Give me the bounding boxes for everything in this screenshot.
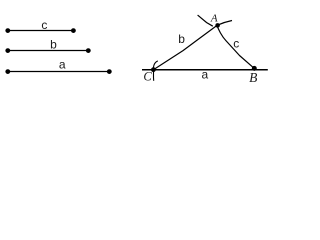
svg-text:A: A [210,13,218,25]
vertex C dot [151,67,156,72]
vertex A dot [215,23,220,28]
segment b [8,50,89,52]
segment b left endpoint dot [5,48,10,53]
base line through C and B [142,69,268,71]
side b of triangle (C to A) [154,26,217,70]
svg-text:b: b [178,32,185,46]
vertex B dot [252,66,257,71]
svg-text:b: b [50,38,57,52]
svg-text:c: c [41,18,47,32]
segment c right endpoint dot [71,28,76,33]
svg-text:a: a [59,57,66,71]
segment a left endpoint dot [5,69,10,74]
ray above A to upper-right [218,21,232,25]
ray above A to upper-left [198,15,213,26]
segment c [8,30,74,32]
svg-text:c: c [233,37,239,51]
svg-text:a: a [201,67,208,81]
svg-text:B: B [249,70,257,85]
segment c left endpoint dot [5,28,10,33]
segment a right endpoint dot [107,69,112,74]
segment b right endpoint dot [86,48,91,53]
svg-text:C: C [143,70,152,84]
segment a [8,71,110,73]
compass arc through C [153,61,157,81]
side c of triangle (A to B) [217,25,254,68]
